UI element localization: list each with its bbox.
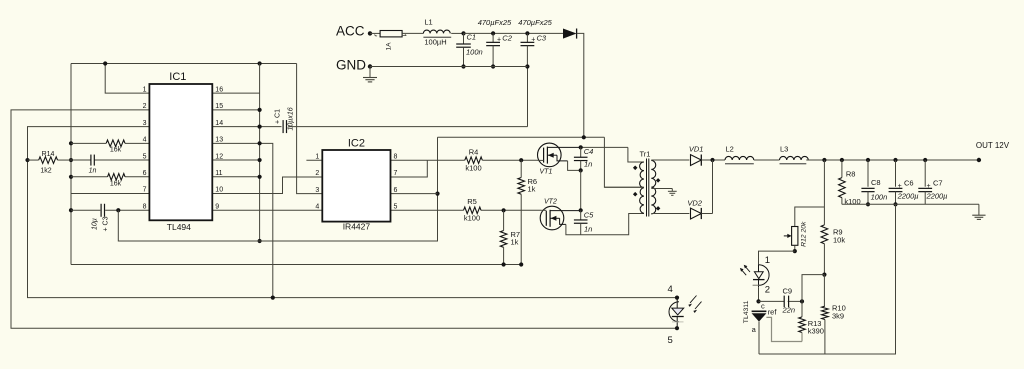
label C4 value: [584, 160, 592, 169]
label R14: [42, 151, 55, 158]
node junction: [800, 299, 804, 303]
svg-text:11: 11: [215, 170, 222, 177]
wire ACC to fuse: [370, 32, 380, 34]
svg-text:R4: R4: [469, 148, 479, 157]
capacitor C2 (470µFx25): [486, 33, 500, 66]
label R14 value: [40, 168, 51, 175]
polarity dot primary: [633, 166, 638, 171]
svg-text:1: 1: [765, 255, 770, 266]
wire left bias rail: [70, 64, 72, 265]
node junction: [258, 175, 262, 179]
transformer Tr1 secondary: [651, 161, 655, 214]
label R5: [467, 197, 477, 206]
svg-text:1n: 1n: [584, 160, 592, 169]
wire VT2 gate: [541, 209, 546, 211]
svg-text:k100: k100: [465, 164, 481, 173]
svg-text:k100: k100: [464, 214, 480, 223]
label TL431 c: [761, 302, 765, 311]
wire pin16 link: [212, 92, 259, 94]
wire VT1 drain: [547, 146, 628, 148]
label VT1: [540, 168, 553, 175]
wire gnd rail: [370, 66, 527, 68]
transistor VT2: [540, 206, 566, 230]
capacitor C9: [784, 296, 788, 308]
svg-text:+ C3: + C3: [103, 216, 110, 231]
wire pin8 drop: [118, 137, 437, 241]
svg-text:VD1: VD1: [689, 145, 704, 154]
wire pin2 run: [11, 110, 677, 328]
node junction: [461, 31, 465, 35]
svg-text:C4: C4: [584, 147, 594, 156]
svg-text:2: 2: [143, 103, 147, 110]
wire VD2 out: [701, 213, 712, 215]
svg-text:15: 15: [215, 103, 223, 110]
node junction: [258, 158, 262, 162]
wire primary mid lead: [604, 186, 644, 188]
label TL431: [743, 300, 750, 323]
ground output: [972, 204, 985, 219]
svg-text:100n: 100n: [871, 193, 888, 202]
wire VD2 link: [712, 160, 714, 214]
node junction: [491, 64, 495, 68]
capacitor C1 (10µx16): [283, 120, 527, 133]
wire R5 row: [391, 209, 542, 211]
label IC1: [169, 71, 186, 83]
svg-text:1: 1: [315, 153, 319, 160]
wire C1 node on: [464, 32, 494, 34]
wire C3 node on: [527, 32, 563, 34]
svg-text:R8: R8: [846, 170, 856, 179]
label R10 value: [832, 312, 844, 321]
svg-text:IC2: IC2: [348, 138, 365, 150]
label R6: [528, 177, 538, 186]
wire VD1 out: [701, 159, 725, 161]
capacitor C4: [574, 147, 588, 170]
wire pin10 to IC2 pin2: [212, 177, 322, 194]
resistor R8: [839, 160, 846, 204]
svg-text:7: 7: [143, 187, 147, 194]
svg-text:10µx16: 10µx16: [288, 107, 295, 130]
LED arrows: [740, 265, 750, 276]
node junction: [675, 326, 679, 330]
wire pin6 lead: [71, 176, 149, 178]
label C5 value: [584, 225, 592, 234]
wire secondary mid: [651, 188, 672, 190]
wire L2 to L3: [754, 159, 780, 161]
node junction: [579, 145, 583, 149]
svg-text:GND: GND: [336, 58, 366, 73]
label C6 value: [897, 192, 919, 201]
svg-text:k390: k390: [808, 327, 824, 336]
label R8: [846, 170, 856, 179]
node junction: [582, 135, 586, 139]
label L3: [780, 145, 788, 154]
svg-text:4: 4: [668, 284, 673, 295]
svg-text:470µFx25: 470µFx25: [478, 18, 512, 27]
svg-text:VT1: VT1: [540, 168, 553, 175]
wire R12 bottom: [794, 245, 796, 251]
wire C2 node on: [493, 32, 527, 34]
wire IC2 pin8 out: [391, 159, 428, 161]
label R5 value: [464, 214, 480, 223]
fuse FU1: [375, 31, 407, 37]
transistor VT1: [538, 143, 568, 167]
svg-text:16k: 16k: [110, 181, 122, 188]
wire secondary top: [651, 159, 689, 161]
resistor R14: [39, 157, 58, 164]
wire R12 top link: [795, 207, 825, 227]
photodiode arrows: [688, 296, 701, 314]
label photodiode pin 4: [668, 284, 673, 295]
resistor R4: [465, 157, 483, 164]
svg-text:TL494: TL494: [167, 222, 191, 232]
node junction: [103, 61, 107, 65]
capacitor C3 (470µFx25): [521, 33, 535, 66]
label L2: [726, 145, 734, 154]
label 1n: [89, 168, 97, 175]
svg-text:6: 6: [394, 187, 398, 194]
wire pin4 lead: [71, 142, 149, 144]
svg-text:470µFx25: 470µFx25: [518, 18, 552, 27]
label OUT 12V: [976, 141, 1010, 150]
svg-text:4: 4: [143, 137, 147, 144]
label C7: [927, 179, 943, 191]
node junction: [525, 31, 529, 35]
wire pin15 link: [212, 109, 259, 111]
label opto pin 1: [765, 255, 770, 266]
wire fuse to L1: [402, 32, 423, 34]
regulator TL431: [752, 311, 767, 321]
svg-text:L3: L3: [780, 145, 788, 154]
label IC2: [348, 138, 365, 150]
wire IC2 pin7 out: [391, 160, 428, 177]
wire pin13 link: [212, 143, 272, 297]
svg-text:2200µ: 2200µ: [897, 192, 919, 201]
label R8 value: [844, 197, 860, 206]
node junction: [579, 168, 583, 172]
wire R9 bottom: [823, 244, 825, 275]
inductor L3: [780, 156, 809, 163]
resistor R13: [799, 317, 806, 333]
wire pin7 run: [71, 193, 149, 195]
wire IC2 pin6: [391, 193, 438, 195]
node junction: [519, 262, 523, 266]
svg-text:+: +: [497, 37, 501, 44]
capacitor C5: [574, 210, 588, 234]
wire C1 to gnd rail: [527, 67, 529, 127]
wire ref grey: [766, 317, 802, 341]
node junction: [756, 299, 760, 303]
capacitor C1 (100n): [456, 33, 471, 66]
wire R13 top: [802, 275, 824, 302]
wire R13 link: [801, 301, 803, 317]
capacitor C8: [861, 160, 874, 204]
photodiode: [669, 298, 684, 329]
label TL494: [167, 222, 191, 232]
svg-text:6: 6: [143, 170, 147, 177]
node junction: [793, 249, 797, 253]
node junction: [893, 202, 897, 206]
resistor R6: [518, 178, 525, 195]
wire railA to IC2 pin3: [297, 64, 323, 194]
svg-text:100µH: 100µH: [424, 38, 446, 47]
svg-text:2: 2: [765, 284, 770, 295]
wire pin14 link: [212, 126, 281, 128]
wire vref rail: [259, 64, 261, 242]
polarity dot secondary: [656, 178, 661, 183]
svg-text:10: 10: [215, 187, 223, 194]
wire pin3 run: [28, 127, 678, 298]
svg-text:Tr1: Tr1: [640, 150, 651, 159]
node junction: [840, 158, 844, 162]
wire supply rail: [438, 136, 605, 138]
label L1: [424, 18, 432, 27]
inductor L1: [423, 30, 451, 37]
diode VD2: [691, 208, 702, 219]
resistor R10: [822, 306, 829, 319]
node junction: [525, 64, 529, 68]
label opto pin 2: [765, 284, 770, 295]
svg-text:L2: L2: [726, 145, 734, 154]
svg-text:10k: 10k: [833, 236, 845, 245]
wire R6 leads: [520, 160, 522, 264]
label Tr1: [640, 150, 651, 159]
wire VT1 gate: [537, 159, 543, 161]
svg-text:C5: C5: [584, 211, 594, 220]
svg-text:ref: ref: [768, 308, 778, 317]
wire secondary bottom: [651, 213, 689, 215]
svg-text:R12 20k: R12 20k: [801, 221, 808, 247]
node junction: [579, 208, 583, 212]
node junction: [258, 124, 262, 128]
svg-text:VD2: VD2: [687, 199, 702, 208]
resistor 16k (pin6): [108, 174, 126, 181]
transformer core: [647, 159, 649, 217]
label R7 value: [511, 238, 519, 247]
ground transformer: [668, 189, 677, 196]
node junction: [866, 158, 870, 162]
svg-text:12: 12: [215, 153, 223, 160]
svg-text:C8: C8: [871, 178, 881, 187]
wire R13 bottom: [801, 333, 803, 342]
label C8: [871, 178, 881, 187]
node junction: [258, 61, 262, 65]
IC IC2 box: [322, 150, 390, 222]
svg-text:C9: C9: [783, 287, 793, 296]
label C7 value: [926, 192, 948, 201]
wire R7 leads: [503, 210, 505, 264]
node junction: [502, 262, 506, 266]
wire gnd return rail: [71, 264, 521, 266]
svg-text:IR4427: IR4427: [343, 222, 371, 232]
label R13: [808, 319, 822, 328]
svg-text:C3: C3: [537, 34, 547, 43]
label R13 value: [808, 327, 824, 336]
label C9: [783, 287, 793, 296]
resistor 16k (pin4): [106, 140, 125, 147]
wire VT1 source: [568, 161, 581, 171]
svg-text:1: 1: [143, 86, 147, 93]
capacitor C7: [918, 160, 932, 204]
svg-text:2: 2: [315, 170, 319, 177]
svg-text:14: 14: [215, 120, 223, 127]
capacitor 1n (pin5): [91, 155, 94, 166]
node junction: [69, 141, 73, 145]
node junction: [519, 158, 523, 162]
wire top-left rail: [71, 63, 297, 65]
wire R14 leads: [28, 159, 72, 161]
svg-text:16k: 16k: [110, 147, 122, 154]
wire pin9 to pin4: [212, 209, 322, 211]
wire R10 link: [823, 275, 825, 307]
svg-text:1A: 1A: [386, 42, 393, 51]
svg-text:16: 16: [215, 86, 223, 93]
svg-text:3: 3: [143, 120, 147, 127]
node junction: [69, 208, 73, 212]
svg-text:C1: C1: [467, 33, 477, 42]
label TL431 a: [752, 325, 757, 334]
resistor R7: [500, 231, 507, 248]
node junction: [675, 296, 679, 300]
wire pin8 leads: [71, 209, 149, 211]
label fuse: [386, 42, 393, 51]
svg-text:+: +: [898, 183, 902, 190]
label 16k: [110, 181, 122, 188]
svg-text:5: 5: [668, 335, 673, 346]
svg-text:+: +: [531, 37, 535, 44]
label C1: [275, 109, 282, 124]
node junction: [435, 192, 439, 196]
capacitor C3 (10µ): [101, 204, 104, 217]
svg-text:VT2: VT2: [544, 199, 557, 206]
node junction: [710, 158, 714, 162]
svg-text:22n: 22n: [782, 306, 796, 315]
label 16k: [110, 147, 122, 154]
node junction: [866, 202, 870, 206]
label R6 value: [528, 185, 536, 194]
diode VD1: [691, 155, 702, 166]
IC IC1 box: [149, 84, 212, 220]
svg-text:5: 5: [143, 153, 147, 160]
label L1 value: [424, 38, 446, 47]
wire pin5 lead: [71, 159, 149, 161]
svg-text:1n: 1n: [584, 225, 592, 234]
wire source to VT2 drain: [580, 170, 582, 210]
wire R10 bottom: [824, 320, 826, 355]
trimmer R12: [784, 227, 798, 246]
label C3: [531, 34, 547, 44]
label R7: [511, 230, 521, 239]
svg-text:L1: L1: [424, 18, 432, 27]
svg-text:10µ: 10µ: [92, 218, 99, 230]
label TL431 ref: [768, 308, 778, 317]
label C1 value: [466, 48, 483, 57]
node junction: [491, 31, 495, 35]
wire pin12 link: [212, 159, 259, 161]
svg-text:IC1: IC1: [169, 71, 186, 83]
wire R4 row: [427, 159, 537, 161]
capacitor C6: [889, 160, 903, 204]
svg-text:c: c: [761, 302, 765, 311]
label R12: [801, 221, 808, 247]
wire opto pin1: [759, 251, 795, 264]
node junction: [461, 64, 465, 68]
svg-text:ACC: ACC: [336, 24, 365, 39]
node junction: [893, 158, 897, 162]
label C6: [898, 179, 914, 191]
optocoupler LED: [753, 264, 769, 287]
node GND terminal: [368, 64, 372, 68]
polarity dot secondary 2: [656, 206, 661, 211]
inductor L2: [725, 156, 754, 163]
label ACC: [336, 24, 365, 39]
IC2 pin numbers: [315, 153, 397, 210]
label VD1: [689, 145, 704, 154]
node junction: [502, 208, 506, 212]
svg-text:C6: C6: [904, 179, 914, 188]
ground input: [363, 67, 377, 82]
label R9 value: [833, 236, 845, 245]
svg-text:+ C1: + C1: [275, 109, 282, 124]
label C2: [497, 34, 513, 44]
svg-text:100n: 100n: [466, 48, 483, 57]
IC1 pin numbers: [143, 86, 224, 210]
node junction: [258, 239, 262, 243]
svg-text:1n: 1n: [89, 168, 97, 175]
node junction: [258, 141, 262, 145]
transformer Tr1 primary: [640, 162, 644, 213]
node junction: [69, 175, 73, 179]
svg-text:13: 13: [215, 137, 223, 144]
svg-text:1k2: 1k2: [40, 168, 51, 175]
wire VT2 source: [566, 214, 644, 235]
wire drain to primary top: [628, 147, 644, 162]
svg-text:1k: 1k: [511, 238, 519, 247]
resistor R5: [464, 207, 482, 214]
label C1 value: [288, 107, 295, 130]
svg-text:4: 4: [315, 204, 319, 211]
svg-text:TL4311: TL4311: [743, 300, 750, 323]
node ACC terminal: [368, 31, 372, 35]
node junction: [258, 108, 262, 112]
svg-text:C7: C7: [933, 179, 943, 188]
resistor R9: [821, 225, 828, 244]
label R4: [469, 148, 479, 157]
node junction: [271, 296, 275, 300]
svg-text:1k: 1k: [528, 185, 536, 194]
svg-text:3k9: 3k9: [832, 312, 844, 321]
wire diode out: [577, 33, 584, 137]
svg-text:R14: R14: [42, 151, 55, 158]
label C2 value: [478, 18, 512, 27]
node junction: [25, 158, 29, 162]
label C5: [584, 211, 594, 220]
polarity dot primary 2: [633, 192, 638, 197]
svg-text:3: 3: [315, 187, 319, 194]
diode input: [563, 29, 577, 39]
label R10: [832, 304, 846, 313]
node OUT terminal: [977, 158, 981, 162]
svg-text:9: 9: [215, 203, 219, 210]
svg-text:R5: R5: [467, 197, 477, 206]
wire out rail: [806, 159, 979, 161]
label VD2: [687, 199, 702, 208]
wire VT2 drain: [550, 209, 581, 211]
label C8 value: [871, 193, 888, 202]
svg-text:+: +: [927, 183, 931, 190]
wire R9 top: [823, 160, 825, 225]
wire pin11 link: [212, 176, 259, 178]
